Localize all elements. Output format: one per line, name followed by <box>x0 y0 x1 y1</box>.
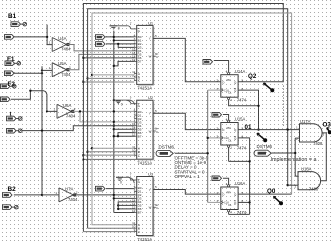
port D0 mid <box>96 35 106 40</box>
svg-text:7404: 7404 <box>61 72 71 77</box>
inverter U4A <box>49 36 72 52</box>
svg-text:W: W <box>149 55 152 59</box>
wire U15A CL return <box>229 160 250 162</box>
svg-text:7404: 7404 <box>61 47 71 52</box>
svg-text:1: 1 <box>49 66 51 70</box>
wire U7A out to mux3 D2 <box>75 194 135 196</box>
wire mux3 D5 row <box>118 204 134 206</box>
svg-text:Y: Y <box>149 112 151 116</box>
node junction W2/U18A <box>287 184 289 186</box>
inverter U5A <box>49 61 72 77</box>
node junction mux2 D4 <box>113 125 115 127</box>
wire mux2 C row <box>83 154 134 156</box>
wire mux1 A row <box>92 74 134 76</box>
node junction U7A/D2 <box>113 194 115 196</box>
stimulus DSTM6 right <box>254 144 273 156</box>
marker O1 <box>257 133 267 142</box>
svg-text:B2: B2 <box>8 186 17 193</box>
svg-text:0: 0 <box>121 103 123 107</box>
node junction t/B2 cross <box>41 129 43 131</box>
and-gate U18A <box>295 167 321 192</box>
svg-text:PR: PR <box>227 78 231 82</box>
node junction W3 mux1 A <box>91 74 93 76</box>
svg-text:74151A: 74151A <box>137 237 152 241</box>
wire U4A input drop <box>47 25 52 45</box>
node junction F1/U5A <box>41 69 43 71</box>
svg-text:U4A: U4A <box>58 36 66 41</box>
wire U16A Qbar row <box>238 201 250 203</box>
svg-text:U17A: U17A <box>300 119 311 124</box>
node junction CL2 <box>248 160 250 162</box>
node junction D2 tie <box>117 43 119 45</box>
marker Q0 <box>274 196 284 205</box>
wire clock2 vertical <box>294 138 296 176</box>
wire mux1 D7 jog <box>114 61 134 66</box>
port F1 input <box>5 71 15 76</box>
wire DSTM6R out <box>272 152 296 154</box>
svg-text:7486: 7486 <box>309 186 319 191</box>
svg-text:2: 2 <box>69 40 71 44</box>
wire U2 Y to U15A D <box>153 113 221 129</box>
node junction mux2 D7a <box>113 135 115 137</box>
svg-text:2: 2 <box>69 66 71 70</box>
svg-text:0: 0 <box>118 26 120 30</box>
svg-text:1: 1 <box>230 146 232 150</box>
dff U15A <box>216 117 246 151</box>
svg-text:7: 7 <box>130 22 132 26</box>
node junction B2/U7A <box>41 194 43 196</box>
node junction W2 mux1 B <box>86 77 88 79</box>
node junction clk DSTM <box>207 152 209 154</box>
wire mux2 D7 row <box>114 135 134 137</box>
inverter U6A <box>53 103 76 119</box>
svg-text:U15A: U15A <box>235 117 246 122</box>
wire PR wire U14A <box>214 61 229 73</box>
port PR U15A <box>212 112 222 117</box>
port PR U14A <box>203 60 213 65</box>
svg-text:5: 5 <box>155 34 157 38</box>
marker O3 <box>327 128 331 135</box>
svg-text:7408: 7408 <box>313 141 323 146</box>
wire clock vertical <box>207 90 209 202</box>
svg-text:D7: D7 <box>138 60 142 64</box>
svg-text:7: 7 <box>130 173 132 177</box>
mux U3 74151A <box>127 172 158 241</box>
svg-text:1: 1 <box>296 125 298 129</box>
wire U5A out to mux1 D5 <box>69 54 134 69</box>
node junction mux2 D3 cross <box>113 121 115 123</box>
node junction clock2 <box>294 152 296 154</box>
node junction Qbar1/O1 <box>257 128 259 130</box>
wire mux1 D2-D3 tie <box>118 44 134 48</box>
svg-text:0: 0 <box>120 181 122 185</box>
svg-text:D7: D7 <box>138 211 142 215</box>
wire clock to U14A <box>208 89 221 91</box>
wire U14A CL hook <box>229 100 259 106</box>
wire mux3 D7 row <box>114 212 134 214</box>
mux U1 74151A <box>127 20 158 90</box>
mux U2 74151A <box>127 95 158 165</box>
svg-text:7404: 7404 <box>68 197 78 202</box>
port B1 unconnected <box>11 22 27 27</box>
wire U16A CL drop <box>228 212 230 215</box>
svg-text:U18A: U18A <box>301 167 312 172</box>
node junction Qbar3 <box>248 201 250 203</box>
port feeding U3 D0 <box>96 186 106 191</box>
wire DSTM6L out <box>175 152 208 154</box>
svg-text:DSTM6: DSTM6 <box>159 144 175 149</box>
ground at U3 strobe <box>116 177 134 184</box>
svg-text:b: b <box>156 130 158 134</box>
wire U6A out to mux2 D0 <box>74 110 135 112</box>
node junction step bottom <box>117 208 119 210</box>
wire mux2 B row <box>88 151 135 153</box>
node junction W1 mux1 D6 <box>82 57 84 59</box>
wire U14A Qbar <box>238 90 258 130</box>
svg-text:PR: PR <box>227 190 231 194</box>
wire PR wire U15A <box>223 115 229 121</box>
wire U17A in2 <box>295 137 299 139</box>
wire U18A in1 <box>295 175 298 177</box>
node junction U6A in <box>46 110 48 112</box>
inverter U7A <box>55 186 78 202</box>
svg-text:b: b <box>156 55 158 59</box>
svg-text:F1: F1 <box>7 56 15 63</box>
svg-text:b: b <box>156 206 158 210</box>
node junction step D5 <box>117 204 119 206</box>
wire U15A CL drop <box>228 147 230 161</box>
stimulus DSTM6 left <box>156 144 175 156</box>
svg-text:7474: 7474 <box>237 145 247 150</box>
wire U15A Qbar <box>238 138 250 215</box>
svg-text:O3: O3 <box>323 121 331 128</box>
wire mid vertical <box>113 31 115 213</box>
svg-text:U14A: U14A <box>235 69 246 74</box>
svg-text:1: 1 <box>230 210 232 214</box>
node node W1 mux2 bottom <box>82 158 84 160</box>
and-gate U17A <box>296 119 325 146</box>
node junction mid/D1 <box>113 39 115 41</box>
node junction F2 corner <box>29 90 31 92</box>
wire U18A in2 <box>288 184 298 186</box>
svg-text:CL: CL <box>228 91 232 95</box>
node junction W1 mux1 C <box>82 81 84 83</box>
wire mux3 port D0 row <box>106 188 134 190</box>
svg-text:PR: PR <box>227 126 231 130</box>
port t input <box>7 128 23 133</box>
svg-text:Y: Y <box>149 188 151 192</box>
wire F2 staircase to U6A <box>11 91 57 112</box>
svg-text:74151A: 74151A <box>137 161 152 166</box>
DigClock attributes <box>175 156 209 179</box>
wire mux1 C row <box>83 81 134 83</box>
wire O1 row <box>238 129 300 131</box>
wire mux1 D1 row <box>114 39 134 41</box>
svg-text:W: W <box>149 129 152 133</box>
node junction CL1 <box>257 105 259 107</box>
wire O3 net <box>321 133 327 181</box>
svg-text:OPPVAL = 1: OPPVAL = 1 <box>175 174 201 179</box>
svg-text:U5A: U5A <box>58 61 66 66</box>
dff U16A <box>216 181 246 215</box>
wire U4A out to mux1 D4 <box>69 45 134 51</box>
wire mid D2 row <box>106 43 134 45</box>
svg-text:W: W <box>149 206 152 210</box>
ground at U1 strobe <box>110 26 128 31</box>
svg-text:U1: U1 <box>148 20 154 25</box>
wire feedback Q0 <box>92 13 292 225</box>
svg-text:4: 4 <box>226 117 228 121</box>
wire U1 Y to U14A D <box>153 38 221 81</box>
svg-text:B1: B1 <box>8 13 17 20</box>
node junction mid/D7 <box>113 65 115 67</box>
node junction W2 mux2 B <box>86 151 88 153</box>
port t unconnected <box>7 116 23 121</box>
node junction W1 mux2 C <box>82 154 84 156</box>
wire mux3 D3 row <box>114 197 134 199</box>
wire PR wire U16A <box>223 178 229 184</box>
wire mux3 C row <box>83 231 134 233</box>
wire U5A input <box>42 69 52 71</box>
wire U6A tie to mux2 D3 <box>80 111 134 122</box>
wire U7A input <box>42 194 59 196</box>
node junction B1/U4A <box>46 36 48 38</box>
node junction mux2 D7b <box>117 135 119 137</box>
wire dashed stub below Q2 <box>283 86 285 128</box>
port D2 mid <box>96 42 106 47</box>
marker Q2 <box>264 83 275 92</box>
wire mux2 D6 jog <box>118 133 134 137</box>
ground at U2 strobe <box>113 99 135 107</box>
svg-text:5: 5 <box>155 185 157 189</box>
node junction F1 row <box>41 72 43 74</box>
dff U14A <box>216 69 246 103</box>
port B2 input <box>3 193 13 198</box>
node junction O1/W2 <box>287 128 289 130</box>
wire clock to U16A <box>208 201 221 203</box>
svg-text:DSTM6: DSTM6 <box>257 144 273 149</box>
port B2 unconnected <box>3 205 19 210</box>
node junction U6A tie <box>79 110 81 112</box>
wire feedback O1 <box>88 9 288 229</box>
node junction W3 mux2 A <box>91 147 93 149</box>
wire B2 to U7A <box>14 66 42 195</box>
wire mux2 A row <box>92 147 134 149</box>
svg-text:CL: CL <box>228 139 232 143</box>
wire feedback Q2 <box>83 4 283 232</box>
svg-text:2: 2 <box>76 191 78 195</box>
wire clock to U15A <box>208 137 221 139</box>
wire U3 Y to U16A D <box>153 190 221 195</box>
node junction clk U15A <box>207 137 209 139</box>
svg-text:74151A: 74151A <box>137 86 152 91</box>
node junction mid/D0 U6A row <box>113 110 115 112</box>
svg-text:7404: 7404 <box>66 114 76 119</box>
svg-text:4: 4 <box>226 70 228 74</box>
node junction mid/D0 <box>113 36 115 38</box>
svg-text:5: 5 <box>155 109 157 113</box>
svg-text:Implementation = a: Implementation = a <box>271 157 317 163</box>
wire mux1 B row <box>88 77 135 79</box>
wire Q0 row <box>238 193 292 195</box>
svg-text:U3: U3 <box>148 172 154 177</box>
svg-text:Y: Y <box>149 37 151 41</box>
wire mux1 D6 row <box>83 57 134 59</box>
wire B1 to U4A input <box>14 36 47 38</box>
node junction mux3 D3 <box>113 197 115 199</box>
svg-text:9: 9 <box>134 77 136 81</box>
node junction mux2 D5 <box>113 128 115 130</box>
wire mux2 bottom row <box>83 158 136 160</box>
svg-text:1: 1 <box>230 98 232 102</box>
svg-text:2: 2 <box>74 107 76 111</box>
wire mux2 D5 row <box>114 128 134 130</box>
wire U16A CL return <box>229 213 250 215</box>
port B1 input <box>5 35 15 40</box>
svg-text:Q2: Q2 <box>248 73 257 80</box>
port F1 unconnected <box>5 61 21 66</box>
wire F1 to U5A <box>14 72 42 74</box>
port F2 unconnected <box>1 84 17 89</box>
port PR U16A <box>212 176 222 181</box>
port F2 input <box>1 97 11 102</box>
svg-text:7474: 7474 <box>237 98 247 103</box>
svg-text:U7A: U7A <box>65 186 73 191</box>
wire t port to mux2 D4 <box>22 126 135 131</box>
svg-text:4: 4 <box>226 182 228 186</box>
wire mux3 step vertical <box>118 202 134 209</box>
svg-text:D7: D7 <box>138 134 142 138</box>
svg-text:CL: CL <box>228 203 232 207</box>
svg-text:U2: U2 <box>148 95 154 100</box>
wire mid D0 row <box>105 36 134 38</box>
wire mux3 B row <box>88 227 135 229</box>
svg-text:U6A: U6A <box>63 103 71 108</box>
svg-text:U16A: U16A <box>235 181 246 186</box>
